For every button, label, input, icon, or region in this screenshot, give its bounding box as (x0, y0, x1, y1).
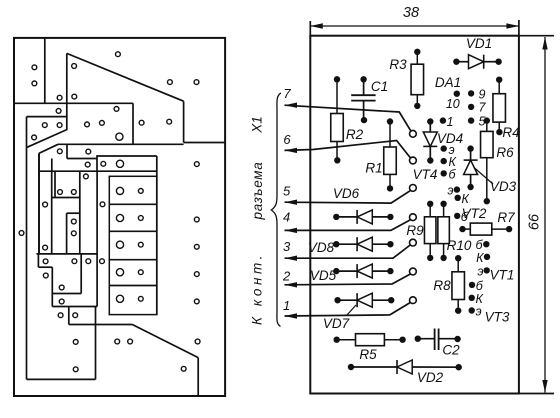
svg-text:э: э (447, 184, 453, 198)
svg-text:разъема: разъема (250, 162, 265, 221)
trace inner rect left (66, 213, 68, 254)
trace H254 row (37, 253, 98, 255)
trace small shape (27, 117, 67, 148)
trace bottom U bottom (27, 378, 96, 380)
dim extension top (519, 35, 554, 37)
trace ladder divider 2 (109, 230, 157, 232)
svg-text:9: 9 (479, 88, 486, 102)
trace vertical V4 (183, 101, 185, 142)
trace vertical V3 (132, 103, 134, 144)
svg-text:66: 66 (527, 213, 543, 230)
svg-text:э: э (477, 265, 483, 279)
trace V95 right of notch (95, 307, 97, 380)
svg-text:10: 10 (446, 97, 460, 111)
diode VD8 (336, 243, 357, 245)
brace (271, 93, 281, 327)
connector pad X1 pin 4 (410, 214, 417, 221)
svg-text:R7: R7 (497, 210, 515, 225)
svg-text:7: 7 (283, 86, 291, 101)
DA1 pin 7 (468, 104, 474, 110)
trace row2 vertical (51, 159, 53, 172)
diode VD2 (351, 366, 397, 368)
VD3 leader (474, 168, 493, 185)
trace ladder divider 4 (109, 285, 157, 287)
svg-text:1: 1 (283, 298, 290, 313)
diode VD3 (470, 149, 472, 160)
dim 66 line (544, 37, 546, 393)
resistor R4 (498, 80, 500, 94)
dim extension bottom (310, 393, 554, 395)
connector pad X1 pin 1 (410, 297, 417, 304)
svg-text:VD2: VD2 (417, 370, 444, 385)
svg-text:VD1: VD1 (466, 36, 492, 51)
svg-text:2: 2 (282, 269, 291, 284)
transistor VT3 pin b (469, 282, 475, 288)
DA1 pin 5 (468, 117, 474, 123)
svg-text:К конт.: К конт. (250, 252, 265, 325)
trace bottom H8 (69, 324, 133, 326)
svg-text:VD7: VD7 (323, 316, 350, 331)
resistor R3 (416, 52, 418, 64)
DA1 pin 1 (440, 117, 446, 123)
transistor VT2 pin b (454, 213, 460, 219)
capacitor C1 (363, 79, 365, 95)
svg-text:R5: R5 (359, 347, 377, 362)
trace bottom vertical V6 (197, 358, 199, 396)
resistor R1 (389, 122, 391, 148)
connector pad X1 pin 7 (410, 130, 417, 137)
svg-text:C2: C2 (442, 343, 460, 358)
transistor VT4 pin b (441, 170, 447, 176)
trace divider top-left cell (44, 39, 46, 104)
trace hypotenuse D1 (67, 53, 184, 101)
transistor VT2 pin k (455, 195, 461, 201)
dim 38 line (310, 25, 519, 27)
svg-text:VD6: VD6 (333, 186, 360, 201)
trace V97 column (96, 171, 98, 306)
trace band0 (97, 156, 157, 171)
resistor R6 (486, 121, 488, 132)
transistor VT4 pin e (441, 145, 447, 151)
VD7 leader (347, 305, 356, 315)
trace Ra bottom (52, 197, 80, 199)
svg-text:К: К (476, 251, 484, 265)
DA1 pin 9 (468, 90, 474, 96)
svg-text:VT2: VT2 (462, 206, 487, 221)
svg-text:R4: R4 (502, 125, 519, 140)
svg-text:VT1: VT1 (490, 268, 515, 283)
svg-text:R3: R3 (389, 57, 407, 72)
transistor VT4 pin k (441, 158, 447, 164)
svg-text:VT4: VT4 (413, 167, 438, 182)
trace cell h293 (52, 293, 81, 295)
resistor R7 (463, 228, 471, 230)
svg-text:R2: R2 (346, 127, 364, 142)
resistor R5 (337, 339, 356, 341)
wire pin5 (285, 190, 411, 203)
svg-text:4: 4 (283, 210, 290, 225)
trace notch v68 (68, 307, 70, 325)
svg-text:C1: C1 (371, 79, 388, 94)
transistor VT3 pin e (469, 307, 475, 313)
svg-text:R1: R1 (365, 161, 382, 176)
trace H6 long row (39, 170, 157, 172)
svg-text:R8: R8 (433, 278, 451, 293)
trace step v52 (51, 267, 53, 306)
trace diagonal D2 (39, 144, 58, 153)
trace vertical border-inner A (26, 117, 28, 380)
capacitor C2 (418, 338, 435, 340)
svg-text:R6: R6 (496, 145, 514, 160)
dim extension right-top (518, 20, 520, 36)
wire pin1 (285, 303, 411, 317)
DA1 pin 10 (454, 91, 460, 97)
trace strip right upper (51, 171, 53, 254)
trace vertical V5 (38, 153, 40, 254)
trace row1 lines (66, 144, 68, 158)
trace Ra left (54, 171, 56, 197)
transistor VT3 pin k (469, 295, 475, 301)
svg-text:DA1: DA1 (435, 75, 461, 90)
trace horizontal H4 (184, 142, 226, 144)
svg-text:VD5: VD5 (310, 268, 337, 283)
pad holes large (116, 133, 123, 140)
svg-text:R10: R10 (447, 238, 472, 253)
connector pad X1 pin 3 (410, 239, 417, 246)
svg-text:К: К (462, 192, 470, 206)
wire pin4 (285, 220, 411, 231)
trace inner rect top (67, 212, 80, 214)
schematic board outline (310, 36, 519, 394)
svg-text:VD3: VD3 (490, 179, 517, 194)
diode VD6 (336, 216, 357, 218)
trace horizontal H1 (14, 102, 133, 104)
svg-text:38: 38 (403, 5, 419, 21)
svg-text:б: б (475, 238, 483, 252)
resistor R2 (336, 79, 338, 113)
wire pin7 (285, 105, 411, 130)
trace Ra right (79, 171, 81, 254)
trace cell v81 (80, 254, 82, 294)
diode VD1 (456, 61, 468, 63)
trace V5 strip left (38, 153, 40, 254)
trace step h267 (38, 266, 52, 268)
trace step v38 (37, 254, 39, 267)
connector pad X1 pin 6 (410, 157, 417, 164)
PCB board outline (14, 38, 225, 396)
resistor R9 (429, 204, 431, 217)
resistor R8 (457, 258, 459, 272)
trace ladder right edge (156, 156, 158, 315)
trace ladder outline (109, 176, 157, 314)
trace horizontal H3 (58, 143, 184, 145)
svg-text:7: 7 (479, 101, 487, 115)
diode VD7 (338, 299, 357, 301)
wire pin3 (285, 245, 411, 258)
svg-text:5: 5 (283, 183, 291, 198)
svg-text:VD8: VD8 (308, 240, 335, 255)
pad holes small (32, 65, 37, 70)
trace bottom diagonal D3 (132, 325, 198, 358)
svg-text:э: э (476, 305, 482, 319)
trace ladder divider 1 (109, 203, 157, 205)
trace cell h306 (52, 306, 97, 308)
connector pad X1 pin 5 (410, 185, 417, 192)
diode VD5 (336, 270, 357, 272)
svg-text:3: 3 (283, 239, 291, 254)
wire pin2 (285, 274, 411, 285)
svg-text:6: 6 (283, 132, 291, 147)
svg-text:R9: R9 (406, 223, 424, 238)
svg-text:б: б (449, 168, 457, 182)
svg-text:Х1: Х1 (249, 116, 264, 134)
wire pin6 (285, 141, 411, 159)
diode VD4 (429, 122, 431, 133)
trace ladder divider 3 (109, 259, 157, 261)
svg-text:VT3: VT3 (485, 310, 510, 325)
trace vertical V2 (66, 53, 68, 116)
resistor R10 (443, 204, 445, 217)
connector pad X1 pin 2 (410, 268, 417, 275)
svg-text:1: 1 (447, 115, 454, 129)
